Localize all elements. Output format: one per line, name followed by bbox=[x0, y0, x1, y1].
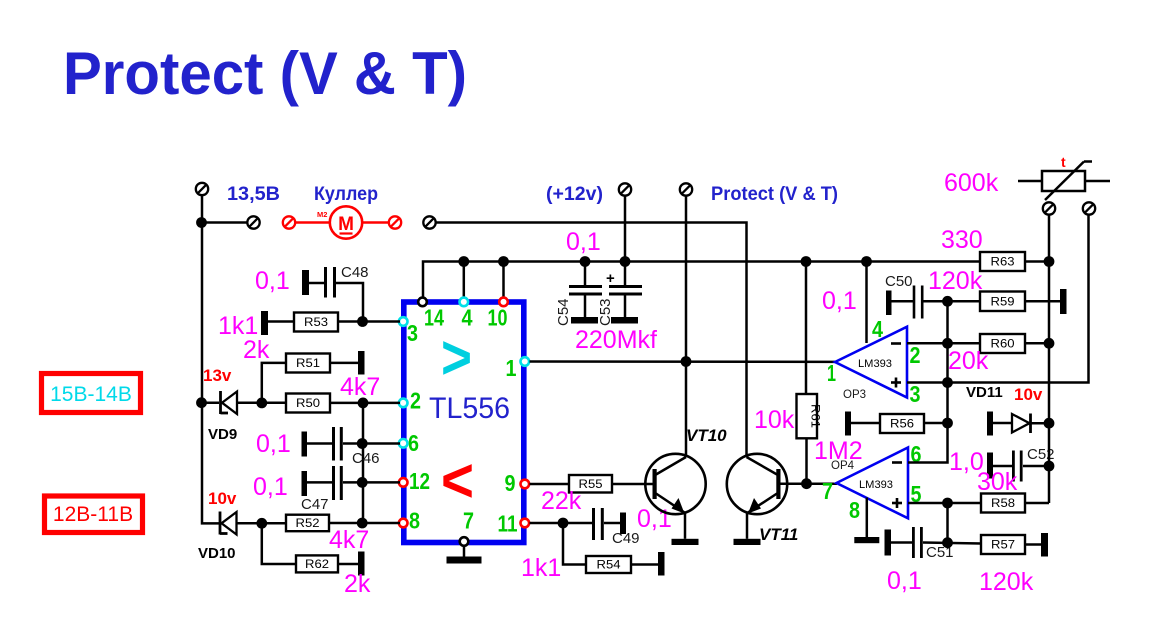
stub bar R54 right bbox=[658, 552, 665, 576]
junction OP4 plus / C51 column bbox=[942, 498, 953, 509]
terminal cooler right bbox=[389, 216, 401, 228]
resistor R50 bbox=[286, 394, 330, 413]
svg-text:8: 8 bbox=[849, 497, 860, 523]
wire C46 stub to plates bbox=[307, 442, 332, 445]
stub bar C49 right bbox=[620, 513, 626, 535]
svg-text:M: M bbox=[338, 214, 354, 235]
junction R56 / ref column bbox=[942, 418, 953, 429]
terminal Protect (V&amp;T) bbox=[680, 183, 692, 195]
wire pin 1 to OP3 output bbox=[530, 360, 837, 363]
wire R53 to pin 3 bbox=[338, 320, 400, 323]
svg-text:Protect (V & T): Protect (V & T) bbox=[63, 40, 467, 107]
capacitor C49 bbox=[592, 508, 604, 540]
pin 4 ring bbox=[460, 298, 469, 307]
pin 3 ring bbox=[399, 317, 408, 326]
capacitor C46 bbox=[332, 427, 343, 461]
wire R50 to pin 2 bbox=[330, 402, 400, 405]
transistor VT11 bbox=[727, 454, 787, 514]
svg-text:7: 7 bbox=[822, 478, 833, 504]
zener diode VD10 bbox=[220, 512, 237, 535]
resistor R59 bbox=[980, 292, 1025, 312]
junction pin11 / R54 bbox=[558, 518, 569, 529]
svg-text:1M2: 1M2 bbox=[814, 437, 863, 465]
wire Protect down to node P bbox=[685, 196, 688, 362]
stub bar C46 left bbox=[302, 432, 308, 457]
junction R60 / thermistor line bbox=[1044, 338, 1055, 349]
wire C50 stub to plates bbox=[892, 300, 914, 303]
svg-text:4k7: 4k7 bbox=[340, 373, 380, 401]
resistor R54 bbox=[586, 556, 631, 573]
terminal 13.5V supply bbox=[196, 183, 208, 195]
capacitor C48 bbox=[324, 267, 336, 298]
wire R57 to stub bbox=[1025, 543, 1041, 546]
wire C47 to pin 12 bbox=[343, 481, 400, 484]
svg-text:>: > bbox=[441, 324, 472, 393]
IC U1 TL556 body bbox=[404, 302, 524, 543]
resistor R62 bbox=[296, 555, 338, 572]
terminal thermistor 2 bbox=[1083, 202, 1095, 214]
wire R61 to VT11 base node bbox=[805, 438, 808, 483]
svg-text:C47: C47 bbox=[301, 496, 329, 513]
capacitor C53 (electrolytic 220Mkf) bbox=[597, 262, 642, 327]
svg-text:C54: C54 bbox=[555, 298, 572, 326]
stub bar R62 right bbox=[358, 552, 365, 576]
junction rail / VD9 bbox=[196, 397, 207, 408]
resistor R61 (vertical) bbox=[797, 394, 821, 438]
terminal 13.5V tap bbox=[247, 216, 259, 228]
svg-text:R52: R52 bbox=[296, 518, 320, 530]
capacitor C52 bbox=[1012, 451, 1023, 482]
svg-text:t: t bbox=[1061, 154, 1066, 170]
svg-text:13,5В: 13,5В bbox=[227, 184, 280, 205]
pin 7 ring bbox=[460, 537, 469, 546]
junction C47 / column bbox=[357, 477, 368, 488]
wire C51 to R57 bbox=[923, 543, 981, 544]
resistor R63 bbox=[980, 252, 1025, 271]
stub bar C48 left bbox=[302, 270, 309, 295]
wire R59 to stub bbox=[1025, 300, 1060, 303]
wire stub to C52 bbox=[993, 465, 1012, 468]
svg-text:R50: R50 bbox=[296, 398, 320, 410]
junction C51 / R57 / OP4 plus bbox=[942, 537, 953, 548]
svg-text:C53: C53 bbox=[597, 298, 614, 326]
pin 14 ring bbox=[418, 298, 427, 307]
pin 1 ring bbox=[521, 357, 530, 366]
junction OP3 plus / ref column bbox=[942, 377, 953, 388]
terminal thermistor 1 bbox=[1043, 202, 1055, 214]
op-amp U2B LM393 OP4 bbox=[837, 448, 909, 519]
svg-text:C46: C46 bbox=[352, 450, 380, 467]
callout box 12B-11B bbox=[45, 496, 143, 533]
svg-text:LM393: LM393 bbox=[859, 479, 893, 491]
junction VD10 / R62 bbox=[256, 518, 267, 529]
junction bus / OP3 V+ riser bbox=[861, 256, 872, 267]
wire C52 to thermistor line bbox=[1023, 465, 1049, 468]
svg-text:7: 7 bbox=[463, 508, 474, 534]
svg-text:12В-11В: 12В-11В bbox=[53, 503, 133, 526]
pin 8 ring bbox=[399, 519, 408, 528]
svg-text:8: 8 bbox=[409, 508, 420, 534]
wire C47 stub to plates bbox=[307, 481, 332, 484]
junction main rail / 13.5V tap bbox=[196, 217, 207, 228]
stub bar R56 left bbox=[845, 412, 851, 436]
wire R52 to pin 8 bbox=[329, 522, 400, 525]
stub bar R53 left bbox=[261, 311, 268, 335]
svg-text:VD11: VD11 bbox=[966, 384, 1003, 401]
wire C50 to R59 bbox=[924, 300, 981, 303]
svg-text:9: 9 bbox=[505, 470, 516, 496]
svg-text:R58: R58 bbox=[991, 498, 1015, 510]
junction C46 / column bbox=[357, 438, 368, 449]
pin 10 ring bbox=[499, 298, 508, 307]
junction bus / C53 and +12v bbox=[620, 256, 631, 267]
resistor R57 bbox=[981, 535, 1025, 554]
svg-text:R53: R53 bbox=[304, 317, 328, 329]
junction C50 / R59 / ref column bbox=[942, 296, 953, 307]
svg-text:120k: 120k bbox=[979, 568, 1034, 596]
wire cooler left (red) bbox=[296, 221, 331, 224]
svg-text:10v: 10v bbox=[208, 489, 237, 508]
svg-text:0,1: 0,1 bbox=[256, 430, 291, 458]
wire pin11 down to R54 bbox=[563, 523, 586, 565]
wire top supply bus bbox=[423, 262, 980, 298]
svg-text:Protect (V & T): Protect (V & T) bbox=[711, 184, 838, 205]
svg-text:11: 11 bbox=[498, 511, 518, 537]
svg-text:VT11: VT11 bbox=[759, 525, 798, 544]
junction VD11 / thermistor line bbox=[1044, 418, 1055, 429]
stub bar C50 left bbox=[886, 291, 892, 316]
zener diode VD9 bbox=[221, 391, 238, 414]
wire R60 to thermistor line bbox=[1025, 342, 1049, 345]
svg-text:Куллер: Куллер bbox=[314, 184, 378, 205]
svg-text:2k: 2k bbox=[243, 336, 270, 364]
stub bar VD11 left bbox=[987, 412, 993, 436]
pin 2 ring bbox=[399, 399, 408, 408]
svg-text:C52: C52 bbox=[1027, 446, 1055, 463]
junction C52 / thermistor line bbox=[1044, 461, 1055, 472]
junction VD9 / R51 riser bbox=[256, 398, 267, 409]
svg-text:R57: R57 bbox=[991, 540, 1015, 552]
wire main left rail down to VD10 bbox=[202, 195, 219, 523]
junction R52 / column bbox=[357, 518, 368, 529]
svg-text:0,1: 0,1 bbox=[253, 473, 288, 501]
wire pin 11 to C49 bbox=[530, 522, 593, 525]
resistor R53 bbox=[294, 313, 338, 332]
wire divider column bbox=[362, 403, 365, 523]
wire C46 to pin 6 bbox=[343, 442, 400, 445]
wire OP4 plus to R58 bbox=[908, 502, 981, 505]
svg-text:R56: R56 bbox=[890, 419, 914, 431]
resistor R55 bbox=[569, 475, 612, 493]
svg-text:R59: R59 bbox=[991, 296, 1015, 308]
wire reference node column bbox=[908, 301, 948, 462]
svg-text:3: 3 bbox=[407, 320, 418, 346]
junction bus / pin 4 riser bbox=[458, 256, 469, 267]
svg-text:C50: C50 bbox=[885, 273, 913, 290]
svg-text:330: 330 bbox=[941, 226, 983, 254]
svg-text:0,1: 0,1 bbox=[887, 567, 922, 595]
wire C48 to pin3 node bbox=[336, 283, 363, 322]
svg-text:1k1: 1k1 bbox=[521, 554, 561, 582]
svg-text:<: < bbox=[441, 447, 474, 516]
svg-text:3: 3 bbox=[910, 381, 921, 407]
resistor R56 bbox=[880, 414, 924, 433]
motor M2 (cooler) bbox=[317, 206, 362, 238]
svg-text:OP3: OP3 bbox=[843, 389, 866, 401]
svg-text:1: 1 bbox=[827, 360, 836, 386]
ground VT11 emitter bbox=[734, 512, 761, 545]
stub bar C51 left bbox=[885, 530, 892, 556]
svg-text:22k: 22k bbox=[541, 487, 582, 515]
wire R56 to ref column bbox=[924, 422, 948, 425]
pin 11 ring bbox=[521, 519, 530, 528]
junction pin1 / Protect / VT10 collector bbox=[681, 356, 692, 367]
wire OP4 plus down to C51/R57 bbox=[946, 503, 949, 543]
wire cooler right (red) bbox=[362, 221, 389, 224]
svg-text:2k: 2k bbox=[344, 570, 371, 598]
wire OP3 minus to R60 bbox=[907, 342, 980, 345]
svg-text:R62: R62 bbox=[305, 559, 329, 571]
svg-text:R54: R54 bbox=[597, 560, 622, 572]
terminal cooler left bbox=[283, 216, 295, 228]
resistor R52 bbox=[286, 515, 329, 532]
pin 9 ring bbox=[521, 480, 530, 489]
wire R63 to thermistor line bbox=[1025, 260, 1049, 263]
svg-text:0,1: 0,1 bbox=[255, 267, 290, 295]
svg-text:TL556: TL556 bbox=[429, 392, 510, 425]
svg-text:600k: 600k bbox=[944, 169, 999, 197]
svg-text:1: 1 bbox=[506, 355, 517, 381]
wire VD11 to thermistor line bbox=[1031, 422, 1049, 425]
wire stub to R56 bbox=[851, 422, 880, 425]
svg-text:+: + bbox=[606, 270, 615, 287]
capacitor C51 bbox=[912, 527, 923, 558]
wire R62 to stub bbox=[338, 563, 358, 566]
svg-text:2: 2 bbox=[910, 342, 921, 368]
wire bus down to R61 bbox=[805, 262, 808, 395]
svg-text:0,1: 0,1 bbox=[637, 505, 672, 533]
callout box 15B-14B bbox=[42, 374, 141, 413]
junction R53 / C48 / pin3 bbox=[357, 316, 368, 327]
terminal cooler feed bbox=[423, 216, 435, 228]
wire R55 to VT10 base bbox=[612, 483, 653, 486]
terminal +12v bbox=[619, 183, 631, 195]
svg-text:C48: C48 bbox=[341, 264, 369, 281]
svg-text:15В-14В: 15В-14В bbox=[50, 383, 132, 406]
wire R51 to stub bbox=[330, 362, 358, 365]
svg-text:14: 14 bbox=[424, 305, 444, 331]
svg-text:20k: 20k bbox=[948, 347, 989, 375]
svg-text:C49: C49 bbox=[612, 530, 640, 547]
junction bus / pin 10 riser bbox=[498, 256, 509, 267]
svg-text:13v: 13v bbox=[203, 366, 232, 385]
diode VD11 bbox=[1012, 414, 1031, 434]
wire +12v down to bus bbox=[624, 196, 627, 262]
svg-text:220Mkf: 220Mkf bbox=[575, 326, 657, 354]
wire VD9 node up to R51 bbox=[262, 363, 286, 403]
capacitor C47 bbox=[332, 466, 343, 500]
svg-text:R61: R61 bbox=[809, 404, 821, 428]
junction R50 / divider column bbox=[358, 398, 369, 409]
wire rail to VD9 bbox=[202, 401, 220, 404]
wire cooler feed to VT11 collector bbox=[436, 223, 747, 458]
svg-text:LM393: LM393 bbox=[858, 358, 892, 370]
wire stub to R53 bbox=[268, 320, 294, 323]
svg-text:12: 12 bbox=[409, 468, 430, 494]
svg-text:R55: R55 bbox=[579, 479, 603, 491]
op-amp U2A LM393 OP3 bbox=[835, 327, 907, 398]
capacitor C54 bbox=[555, 262, 602, 327]
pin 12 ring bbox=[399, 478, 408, 487]
junction bus / R61 bbox=[801, 256, 812, 267]
stub bar R51 right bbox=[358, 351, 365, 375]
stub bar C47 left bbox=[302, 471, 308, 496]
capacitor C50 bbox=[913, 286, 924, 319]
svg-text:VD9: VD9 bbox=[208, 426, 237, 443]
junction R60 / ref column bbox=[942, 338, 953, 349]
wire OP3 plus to thermistor terminal 2 bbox=[907, 215, 1089, 383]
resistor R51 bbox=[286, 354, 330, 373]
transistor VT10 bbox=[645, 454, 705, 514]
pin 6 ring bbox=[399, 439, 408, 448]
svg-text:10k: 10k bbox=[754, 406, 795, 434]
svg-text:30k: 30k bbox=[977, 468, 1018, 496]
svg-text:4k7: 4k7 bbox=[329, 526, 369, 554]
wire VD10 to R52 bbox=[237, 522, 287, 525]
svg-text:4: 4 bbox=[872, 316, 883, 342]
wire bus down to OP3 pin 4 bbox=[865, 262, 868, 344]
ground VT10 emitter bbox=[672, 512, 699, 545]
wire pin 9 to R55 bbox=[530, 483, 570, 486]
thermistor Rt bbox=[1018, 162, 1110, 201]
wire bus to pin 4 bbox=[463, 262, 466, 298]
wire to 13.5V terminal bbox=[202, 221, 248, 224]
junction VT11 base / R61 bbox=[801, 478, 812, 489]
svg-text:2: 2 bbox=[410, 388, 421, 414]
junction R63 / thermistor line bbox=[1044, 256, 1055, 267]
wire node P down to VT10 collector bbox=[685, 362, 688, 458]
wire stub to C51 bbox=[891, 541, 912, 544]
resistor R60 bbox=[980, 334, 1025, 353]
wire VD9 to R50 bbox=[237, 401, 286, 404]
stub bar R59 right bbox=[1060, 289, 1067, 314]
svg-text:4: 4 bbox=[462, 305, 473, 331]
wire down to R62 bbox=[262, 523, 296, 564]
wire R54 to stub bbox=[631, 563, 658, 566]
svg-text:VD10: VD10 bbox=[198, 545, 236, 562]
svg-text:0,1: 0,1 bbox=[822, 287, 857, 315]
ground under pin 7 bbox=[447, 546, 482, 564]
svg-text:VT10: VT10 bbox=[686, 426, 727, 445]
wire bus to pin 10 bbox=[502, 262, 505, 298]
svg-text:0,1: 0,1 bbox=[566, 228, 601, 256]
wire thermistor line 1 down bbox=[1048, 215, 1051, 503]
stub bar C52 left bbox=[987, 453, 993, 479]
svg-text:(+12v): (+12v) bbox=[546, 184, 603, 205]
svg-text:R63: R63 bbox=[991, 257, 1015, 269]
svg-text:6: 6 bbox=[408, 430, 419, 456]
wire R58 to thermistor line bbox=[1025, 502, 1049, 505]
wire C49 to stub bbox=[604, 522, 620, 525]
svg-text:R51: R51 bbox=[296, 358, 320, 370]
svg-text:120k: 120k bbox=[928, 267, 983, 295]
stub bar R57 right bbox=[1041, 533, 1048, 557]
svg-text:M2: M2 bbox=[317, 210, 327, 219]
wire VT11 base to OP4 output bbox=[781, 482, 838, 485]
svg-text:R60: R60 bbox=[991, 339, 1015, 351]
resistor R58 bbox=[981, 494, 1025, 513]
svg-text:10: 10 bbox=[488, 305, 508, 331]
wire C48 stub to plates bbox=[309, 282, 324, 285]
wire stub to VD11 bbox=[993, 422, 1012, 425]
ground OP4 pin 8 bbox=[854, 498, 879, 544]
junction bus / C54 bbox=[580, 256, 591, 267]
svg-text:10v: 10v bbox=[1014, 385, 1043, 404]
